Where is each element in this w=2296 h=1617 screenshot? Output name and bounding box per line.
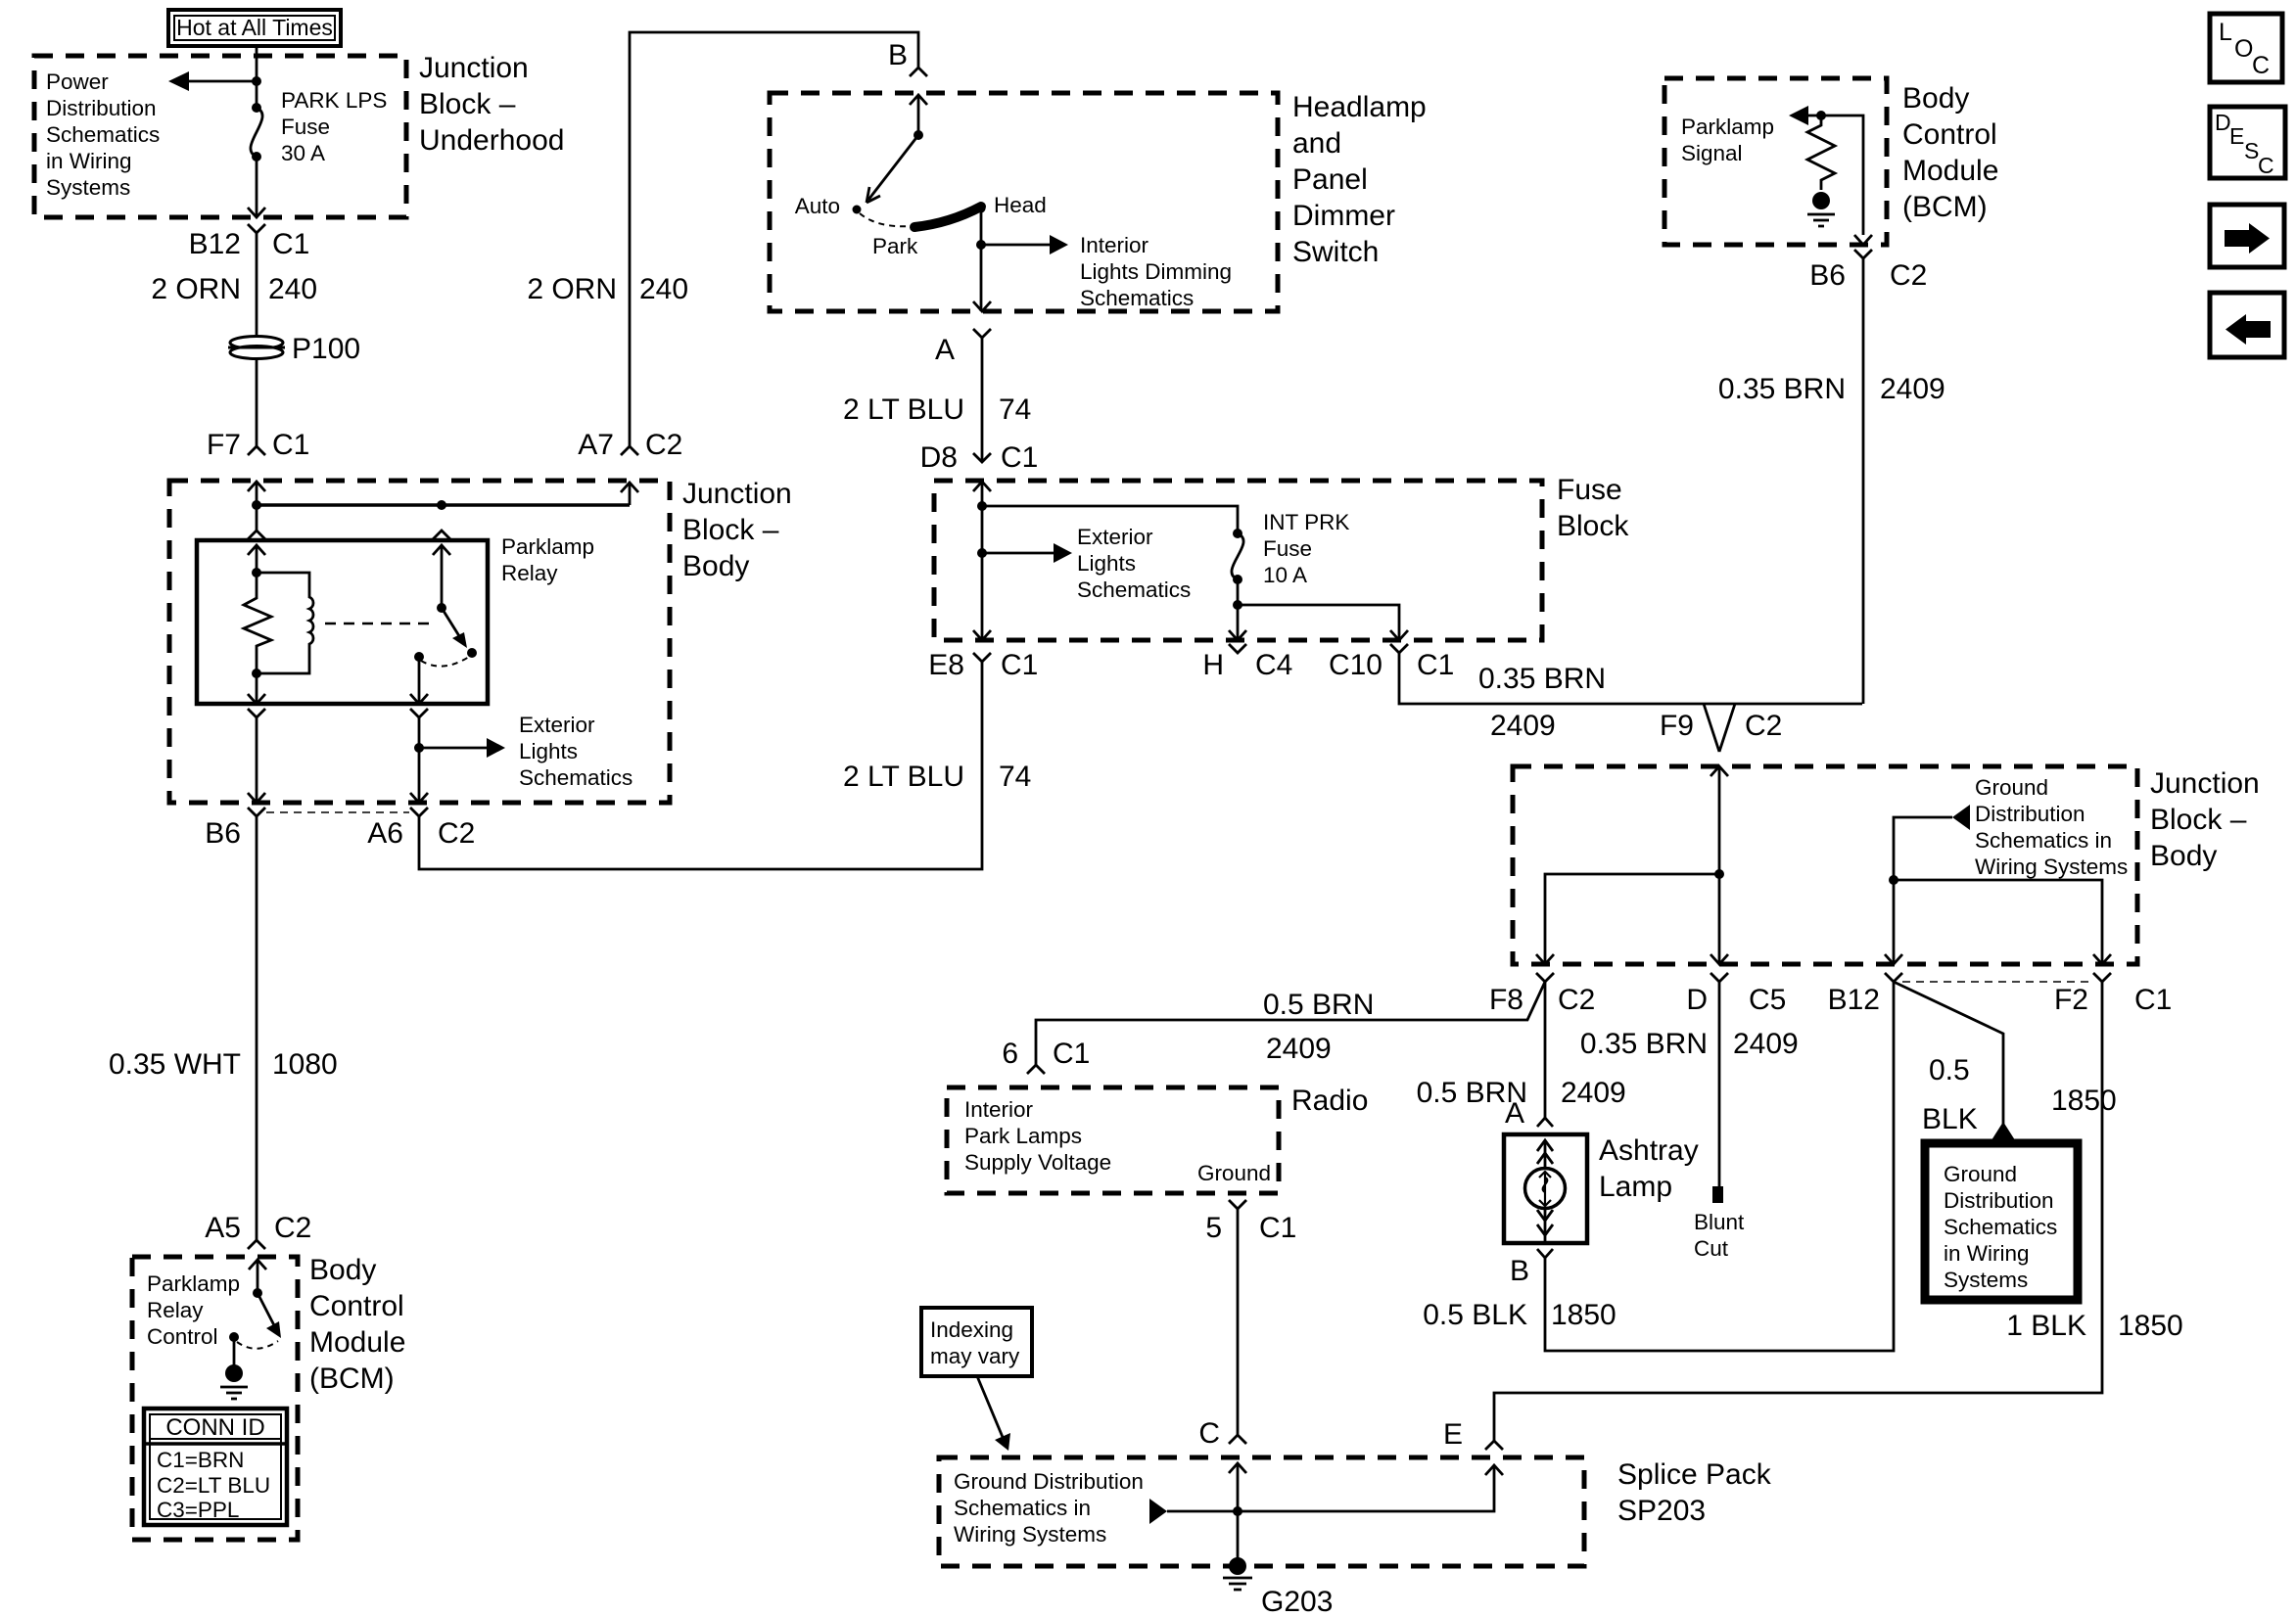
svg-text:Ground Distribution: Ground Distribution: [954, 1469, 1144, 1494]
wire switch output down: [418, 717, 421, 803]
svg-text:0.35 BRN: 0.35 BRN: [1580, 1028, 1708, 1060]
svg-text:0.35 BRN: 0.35 BRN: [1718, 373, 1846, 405]
node dot exterior lights tap: [414, 743, 424, 753]
arrow chevron into relay coil pin: [248, 545, 265, 555]
arrow double chevron lamp terminal B: [1537, 1210, 1553, 1235]
wire feed from Hot at All Times: [256, 46, 258, 108]
arrow double chevron lamp terminal A: [1537, 1140, 1553, 1164]
svg-text:Park Lamps: Park Lamps: [964, 1124, 1082, 1148]
arrow exit chevron B6: [248, 793, 265, 803]
wire to exterior lights reference: [419, 747, 487, 750]
svg-text:C2: C2: [645, 429, 682, 461]
svg-text:Junction: Junction: [419, 52, 529, 84]
svg-text:A: A: [935, 334, 955, 366]
arrow exit chevron B6: [1854, 235, 1872, 245]
fuse PARK LPS 30A: [251, 103, 262, 162]
connector A fork at lamp: [1537, 1118, 1553, 1127]
arrow exit chevron F8: [1536, 954, 1554, 964]
junction block body dashed box: [169, 481, 670, 803]
wire fuse output to C10: [1238, 605, 1399, 640]
node dot at relay coil branch: [252, 500, 261, 510]
svg-text:C2: C2: [274, 1212, 311, 1244]
svg-text:Parklamp: Parklamp: [147, 1271, 240, 1296]
node dot resistor tap: [1816, 111, 1826, 120]
svg-text:Indexing: Indexing: [930, 1317, 1013, 1342]
wire 2 LT BLU 74 to fuse block: [981, 338, 984, 462]
svg-text:O: O: [2234, 35, 2253, 63]
node dot F8 branch: [1714, 869, 1724, 879]
wire dashed travel arc: [860, 213, 911, 226]
svg-text:P100: P100: [292, 333, 360, 365]
splice pack dashed box: [939, 1457, 1584, 1566]
connector E8/C1 fork: [973, 653, 991, 662]
svg-text:Head: Head: [994, 193, 1047, 217]
wire into junction block body: [256, 482, 258, 531]
svg-text:74: 74: [999, 761, 1031, 793]
svg-text:C10: C10: [1329, 649, 1382, 681]
wire switch common: [441, 545, 444, 608]
wire splice bus to E: [1238, 1465, 1494, 1511]
svg-text:E8: E8: [928, 649, 964, 681]
svg-text:Ground: Ground: [1197, 1161, 1271, 1185]
svg-text:F2: F2: [2054, 984, 2088, 1016]
wire coil return to box edge: [256, 673, 258, 704]
svg-text:CONN ID: CONN ID: [165, 1414, 264, 1441]
svg-text:(BCM): (BCM): [1902, 191, 1988, 223]
connector F8/C2 fork: [1536, 973, 1554, 982]
svg-text:Interior: Interior: [1080, 233, 1149, 257]
svg-text:1850: 1850: [2051, 1085, 2117, 1117]
svg-text:C2: C2: [1558, 984, 1595, 1016]
body control module dashed box: [132, 1257, 298, 1540]
arrow wiper arrowhead: [867, 187, 880, 203]
arrow exit chevron: [248, 208, 265, 217]
svg-text:F8: F8: [1489, 984, 1523, 1016]
svg-text:A: A: [1505, 1097, 1524, 1130]
svg-text:Relay: Relay: [501, 561, 558, 585]
svg-text:Distribution: Distribution: [46, 96, 157, 120]
svg-text:Panel: Panel: [1292, 163, 1368, 196]
connector D/C5 fork: [1710, 973, 1728, 982]
arrow switch arrowhead: [266, 1321, 281, 1338]
svg-text:Cut: Cut: [1694, 1236, 1729, 1261]
svg-text:Radio: Radio: [1291, 1085, 1368, 1117]
wire lamp return: [1544, 1209, 1547, 1243]
wire to ground: [233, 1337, 236, 1367]
label box Indexing may vary: [921, 1308, 1032, 1376]
wire 2 LT BLU 74 from A6 to E8: [419, 662, 982, 869]
wire branch to B12: [1893, 880, 1896, 964]
node Head contact dot: [977, 205, 986, 213]
wire to relay control switch: [257, 1260, 259, 1293]
arrow entry chevron at A7: [621, 483, 638, 492]
svg-text:H: H: [1202, 649, 1224, 681]
body control module top right dashed box: [1664, 78, 1887, 245]
node dot fuse output junction: [1233, 600, 1242, 610]
wire 1 BLK 1850 F2 to splice pack E: [1494, 982, 2102, 1441]
svg-text:INT PRK: INT PRK: [1263, 510, 1349, 534]
arrow to ground distribution schematics: [1952, 805, 1970, 830]
arrow armature arrowhead: [452, 632, 467, 648]
connector C fork: [1229, 1435, 1246, 1444]
svg-text:Fuse: Fuse: [1263, 536, 1312, 561]
svg-text:Schematics: Schematics: [519, 765, 633, 790]
arrow exit chevron switch output: [410, 694, 428, 704]
svg-text:in Wiring: in Wiring: [1944, 1241, 2030, 1266]
wire to power distribution reference: [188, 80, 257, 83]
fuse INT PRK 10A: [1232, 529, 1243, 584]
node dot interior lights tap: [976, 240, 986, 250]
svg-text:Schematics in: Schematics in: [954, 1496, 1091, 1520]
wire coil return down: [256, 717, 258, 803]
wire dashed actuation link: [325, 623, 435, 625]
node dot coil bottom: [252, 669, 261, 678]
svg-text:Blunt: Blunt: [1694, 1210, 1745, 1234]
inductor relay coil: [257, 573, 313, 673]
svg-text:Lights Dimming: Lights Dimming: [1080, 259, 1232, 284]
wire 2 ORN 240 to dimmer switch: [630, 32, 918, 446]
wire A7 riser inside box: [629, 483, 632, 505]
svg-text:C2: C2: [1745, 710, 1782, 742]
wire F9 feed down inside box: [1718, 766, 1721, 964]
svg-text:Lamp: Lamp: [1599, 1171, 1672, 1203]
arrow exit chevron at A: [973, 301, 991, 311]
svg-text:Junction: Junction: [2150, 767, 2260, 800]
switch thick park wiper segment: [914, 207, 981, 227]
wire 0.5 BLK 1850 B12 to ground distribution: [1894, 982, 2003, 1126]
blunt cut marker: [1712, 1186, 1723, 1203]
junction block body right dashed box: [1513, 766, 2137, 964]
svg-text:Supply Voltage: Supply Voltage: [964, 1150, 1111, 1175]
wire parklamp signal internal: [1807, 115, 1863, 235]
svg-text:Body: Body: [2150, 840, 2217, 872]
ashtray lamp box: [1504, 1134, 1587, 1243]
wire 0.5 BLK 1850 lamp ground: [1545, 982, 1894, 1351]
wire branch to F8: [1545, 874, 1719, 964]
svg-text:Switch: Switch: [1292, 236, 1379, 268]
connector F7/C1 fork: [248, 446, 265, 455]
wire fuse to box edge: [256, 157, 258, 216]
wire B feed: [917, 95, 920, 135]
svg-text:2 LT BLU: 2 LT BLU: [843, 761, 964, 793]
svg-text:C1=BRN: C1=BRN: [157, 1448, 244, 1472]
svg-text:G203: G203: [1261, 1586, 1333, 1617]
svg-text:Ground: Ground: [1975, 775, 2048, 800]
svg-text:2 ORN: 2 ORN: [527, 273, 617, 305]
wire D blunt cut: [1718, 982, 1721, 1186]
arrow to exterior lights schematics: [487, 738, 505, 758]
svg-text:74: 74: [999, 393, 1031, 426]
svg-text:240: 240: [639, 273, 688, 305]
svg-text:Ashtray: Ashtray: [1599, 1134, 1699, 1167]
svg-text:C1: C1: [1001, 649, 1038, 681]
svg-text:1850: 1850: [2118, 1310, 2183, 1342]
arrow to exterior lights schematics: [1054, 543, 1072, 563]
svg-text:Schematics in: Schematics in: [1975, 828, 2112, 853]
node Auto contact dot: [853, 206, 862, 214]
headlamp and panel dimmer switch dashed box: [770, 93, 1278, 311]
connector fork above relay coil pin: [248, 531, 265, 539]
svg-text:B12: B12: [1828, 984, 1880, 1016]
svg-text:1 BLK: 1 BLK: [2006, 1310, 2086, 1342]
svg-text:240: 240: [268, 273, 317, 305]
svg-text:Body: Body: [682, 550, 749, 582]
svg-text:Interior: Interior: [964, 1097, 1034, 1122]
svg-text:Ground: Ground: [1944, 1162, 2017, 1186]
svg-text:Schematics: Schematics: [1944, 1215, 2057, 1239]
svg-text:2409: 2409: [1561, 1077, 1626, 1109]
svg-text:may vary: may vary: [930, 1344, 1020, 1368]
svg-text:6: 6: [1002, 1038, 1018, 1070]
wire fuse output: [1237, 579, 1240, 640]
connector A fork: [973, 329, 991, 338]
svg-text:Parklamp: Parklamp: [501, 534, 594, 559]
svg-text:A6: A6: [367, 817, 403, 850]
wire D8 feed through fuse block: [981, 482, 984, 640]
arrow to interior lights dimming schematics: [1050, 235, 1068, 254]
ground internal ground: [220, 1364, 248, 1399]
connector E fork: [1485, 1441, 1503, 1450]
svg-text:A7: A7: [578, 429, 614, 461]
svg-text:Block: Block: [1557, 510, 1629, 542]
svg-text:D8: D8: [920, 441, 958, 474]
svg-text:Dimmer: Dimmer: [1292, 200, 1395, 232]
connector fork below relay switch pin: [410, 709, 428, 717]
wire head contact down: [980, 208, 983, 311]
svg-text:Schematics: Schematics: [1080, 286, 1194, 310]
node junction dot: [252, 76, 261, 86]
connector 5/C1 fork: [1229, 1200, 1246, 1209]
svg-text:E: E: [2229, 123, 2244, 149]
node dot fuse feed tap: [977, 501, 987, 511]
svg-text:C1: C1: [1259, 1212, 1296, 1244]
svg-text:2409: 2409: [1490, 710, 1556, 742]
icon box next arrow: [2210, 205, 2284, 267]
svg-text:C: C: [1198, 1417, 1220, 1450]
svg-text:2409: 2409: [1266, 1033, 1332, 1065]
svg-text:Fuse: Fuse: [281, 115, 330, 139]
icon box DESC: [2210, 107, 2285, 178]
svg-text:Relay: Relay: [147, 1298, 204, 1322]
connector F9/C2 splice V: [1704, 704, 1735, 752]
wire indexing pointer line: [977, 1376, 1005, 1442]
svg-text:2409: 2409: [1880, 373, 1945, 405]
svg-text:Body: Body: [1902, 82, 1969, 115]
arrow chevron into relay switch pin: [433, 545, 450, 555]
svg-text:2 LT BLU: 2 LT BLU: [843, 393, 964, 426]
svg-text:0.5: 0.5: [1929, 1054, 1970, 1086]
svg-text:Power: Power: [46, 69, 109, 94]
wire 0.35 BRN 2409 to F9: [1399, 653, 1862, 704]
connector A6/C2 fork: [410, 808, 428, 816]
wire radio ground to G203: [1237, 1209, 1240, 1435]
svg-text:in Wiring: in Wiring: [46, 149, 132, 173]
node fixed contact dot: [414, 652, 424, 662]
arrow to parklamp signal: [1789, 106, 1808, 125]
icon box previous arrow: [2210, 293, 2284, 357]
svg-text:2 ORN: 2 ORN: [151, 273, 241, 305]
connector B12 fork: [1885, 973, 1902, 982]
arrow exit chevron H: [1229, 630, 1246, 640]
arrow entry chevron at B: [910, 95, 927, 105]
box ground distribution schematics: [1925, 1143, 2078, 1300]
svg-text:(BCM): (BCM): [309, 1363, 395, 1395]
svg-text:B12: B12: [189, 228, 241, 260]
wire to exterior lights reference: [982, 552, 1054, 555]
svg-text:Lights: Lights: [1077, 551, 1136, 576]
svg-text:Module: Module: [309, 1326, 405, 1359]
resistor pull-up resistor: [1807, 115, 1835, 190]
svg-text:Control: Control: [1902, 118, 1997, 151]
svg-text:C1: C1: [1053, 1038, 1090, 1070]
svg-text:Exterior: Exterior: [519, 713, 595, 737]
node dot switch pivot: [253, 1288, 262, 1298]
label box "Hot at All Times": [168, 10, 341, 46]
arrow indexing pointer head: [995, 1433, 1010, 1451]
fuse block dashed box: [934, 481, 1542, 640]
wire dashed connector C2 tie line: [266, 811, 409, 813]
svg-text:Hot at All Times: Hot at All Times: [176, 15, 333, 40]
svg-text:B6: B6: [205, 817, 241, 850]
svg-text:C2: C2: [1890, 259, 1927, 292]
connector D8/C1 fork: [973, 453, 991, 462]
arrow to ground distribution schematics: [1149, 1499, 1167, 1524]
arrow exit chevron B12: [1885, 954, 1902, 964]
svg-text:Control: Control: [309, 1290, 404, 1322]
wire to INT PRK fuse: [982, 506, 1238, 533]
connector H/C4 fork: [1229, 644, 1246, 653]
svg-text:Underhood: Underhood: [419, 124, 564, 157]
switch relay armature: [442, 608, 461, 639]
svg-text:Block –: Block –: [682, 514, 779, 546]
wire lamp feed: [1544, 1140, 1547, 1169]
svg-text:C3=PPL: C3=PPL: [157, 1498, 239, 1522]
connector B6/C2 fork: [1854, 250, 1872, 258]
arrow exit chevron coil return: [248, 694, 265, 704]
svg-text:Wiring Systems: Wiring Systems: [954, 1522, 1106, 1547]
svg-text:2409: 2409: [1733, 1028, 1799, 1060]
wire 0.5 BRN 2409 radio feed: [1036, 982, 1545, 1065]
svg-text:C1: C1: [272, 429, 309, 461]
resistor relay resistor: [244, 573, 271, 673]
node dot dimmer pivot: [914, 130, 923, 140]
svg-text:Systems: Systems: [46, 175, 130, 200]
wire 0.35 BRN 2409 from BCM: [1862, 258, 1865, 704]
svg-text:Body: Body: [309, 1254, 376, 1286]
arrow entry chevron at C: [1229, 1463, 1246, 1473]
arrow entry chevron into junction block body right: [1710, 766, 1728, 776]
svg-text:C: C: [2258, 153, 2274, 178]
svg-text:L: L: [2219, 19, 2232, 46]
connector B fork: [910, 68, 927, 76]
wire dashed connector C1 tie line: [1902, 981, 2094, 983]
relay box parklamp relay: [197, 540, 488, 704]
connector A7/C2 fork: [621, 446, 638, 455]
svg-text:F7: F7: [207, 429, 241, 461]
svg-text:C1: C1: [2134, 984, 2172, 1016]
arrow exit chevron E8: [973, 630, 991, 640]
connector fork above relay switch pin: [433, 531, 450, 539]
svg-text:Control: Control: [147, 1324, 218, 1349]
junction block underhood dashed box: [34, 56, 406, 217]
svg-text:Block –: Block –: [419, 88, 516, 120]
svg-text:and: and: [1292, 127, 1341, 160]
connector 6/C1 fork: [1027, 1065, 1045, 1074]
svg-text:PARK LPS: PARK LPS: [281, 88, 387, 113]
wire switch output: [418, 657, 421, 704]
svg-text:C1: C1: [272, 228, 309, 260]
connector F2/C1 fork: [2093, 973, 2111, 982]
wire 0.35 WHT 1080: [256, 816, 258, 1240]
arrow into ground distribution box: [1990, 1122, 2017, 1143]
wire dashed contact arc: [237, 1341, 278, 1349]
node dot at relay switch branch: [437, 500, 446, 510]
svg-text:SP203: SP203: [1617, 1495, 1706, 1527]
svg-text:Schematics: Schematics: [46, 122, 160, 147]
svg-text:Park: Park: [872, 234, 918, 258]
arrow entry chevron into BCM: [249, 1260, 266, 1270]
svg-text:Wiring Systems: Wiring Systems: [1975, 855, 2128, 879]
svg-text:Distribution: Distribution: [1975, 802, 2085, 826]
svg-text:Fuse: Fuse: [1557, 474, 1622, 506]
svg-text:30 A: 30 A: [281, 141, 325, 165]
arrow entry chevron into fuse block: [973, 482, 991, 491]
wire to ground distribution reference: [1894, 817, 1952, 880]
ground G203: [1223, 1557, 1252, 1590]
node dot switch pivot: [437, 603, 446, 613]
connector C10/C1 fork: [1390, 644, 1408, 653]
switch parklamp relay control: [258, 1293, 275, 1327]
arrow exit chevron F2: [2093, 954, 2111, 964]
wire to interior lights dimming: [981, 244, 1050, 247]
svg-text:C5: C5: [1749, 984, 1786, 1016]
arrow exit chevron A6: [410, 793, 428, 803]
wire 2 ORN 240 left branch: [256, 233, 258, 446]
wire branch bus to F2: [1894, 880, 2102, 964]
svg-text:C2: C2: [438, 817, 475, 850]
connector B fork at lamp: [1537, 1249, 1553, 1258]
svg-text:C1: C1: [1417, 649, 1454, 681]
svg-text:Block –: Block –: [2150, 804, 2247, 836]
svg-text:C1: C1: [1001, 441, 1038, 474]
switch dimmer wiper arm: [868, 135, 918, 200]
svg-text:C4: C4: [1255, 649, 1292, 681]
svg-text:5: 5: [1205, 1212, 1222, 1244]
node moving contact dot: [467, 648, 477, 658]
connector B6 fork: [248, 808, 265, 816]
svg-text:Distribution: Distribution: [1944, 1188, 2054, 1213]
svg-text:0.35 WHT: 0.35 WHT: [109, 1048, 241, 1081]
svg-text:C: C: [2252, 52, 2270, 79]
grommet P100: [228, 337, 285, 359]
svg-text:B: B: [1510, 1255, 1529, 1287]
svg-text:1080: 1080: [272, 1048, 338, 1081]
svg-text:C2=LT BLU: C2=LT BLU: [157, 1473, 270, 1498]
ground internal ground: [1807, 192, 1835, 226]
connector B12/C1 fork: [248, 224, 265, 233]
svg-text:Module: Module: [1902, 155, 1998, 187]
svg-text:Junction: Junction: [682, 478, 792, 510]
svg-text:Lights: Lights: [519, 739, 578, 763]
table CONN ID: [144, 1409, 287, 1525]
arrow to power distribution schematics: [168, 71, 189, 91]
lamp ashtray bulb: [1525, 1169, 1566, 1209]
arrow entry chevron into junction block body: [248, 482, 265, 491]
wire dashed contact arc: [421, 657, 469, 667]
svg-text:Splice Pack: Splice Pack: [1617, 1458, 1772, 1491]
svg-text:B6: B6: [1809, 259, 1846, 292]
svg-text:0.5 BLK: 0.5 BLK: [1423, 1299, 1527, 1331]
